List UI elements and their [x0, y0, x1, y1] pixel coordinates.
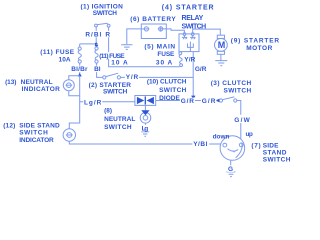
label G/W	[234, 115, 252, 124]
wire Y/Bl bottom run to side stand switch	[69, 141, 221, 144]
svg-text:Lg/R: Lg/R	[84, 100, 102, 107]
svg-text:SWITCH: SWITCH	[19, 130, 48, 137]
fuse F1 10A left	[78, 47, 81, 63]
wire node A down to right fuse	[95, 44, 97, 47]
battery positive terminal	[158, 26, 167, 31]
wire G/R horizontal from diode to clutch switch	[156, 100, 215, 102]
node A junction dot	[95, 43, 98, 46]
connector arrow down above right fuse	[95, 45, 99, 48]
svg-text:Lg: Lg	[142, 126, 149, 133]
ground starter motor	[215, 61, 227, 66]
svg-text:up: up	[246, 131, 253, 138]
label (11) FUSE 10 A right	[99, 52, 131, 66]
diode D1 left triangle	[137, 97, 144, 104]
svg-text:SWITCH: SWITCH	[182, 24, 207, 31]
label (3) CLUTCH SWITCH	[211, 80, 252, 94]
diode D1 cathode bar	[144, 96, 146, 104]
wire R from ignition switch right pole down, then right to main fuse	[109, 27, 180, 67]
ignition switch S1 poles	[95, 24, 98, 27]
neutral switch S3	[140, 105, 151, 131]
svg-text:Y/R: Y/R	[184, 56, 195, 63]
label (9) STARTER MOTOR	[231, 38, 280, 53]
svg-text:INDICATOR: INDICATOR	[19, 137, 54, 144]
wire battery positive to relay terminal	[166, 29, 184, 33]
clutch switch S4	[219, 97, 237, 102]
svg-text:(11) FUSE: (11) FUSE	[40, 49, 74, 56]
label (4) STARTER RELAY SWITCH	[162, 5, 214, 31]
svg-text:10A: 10A	[59, 57, 71, 64]
fuse F2 10A right	[95, 47, 98, 63]
ground battery negative	[121, 45, 132, 50]
ignition switch blade	[97, 23, 108, 24]
label G at side stand ground	[227, 165, 234, 173]
svg-text:(3) CLUTCH: (3) CLUTCH	[211, 80, 252, 87]
relay coil	[188, 42, 194, 52]
side stand indicator lamp L2	[63, 129, 75, 141]
svg-text:30 A: 30 A	[156, 59, 173, 66]
svg-text:10 A: 10 A	[111, 60, 128, 67]
neutral indicator lamp L1	[63, 80, 74, 91]
label (7) SIDE STAND SWITCH	[251, 142, 290, 163]
svg-text:RELAY: RELAY	[182, 15, 204, 22]
svg-text:(7): (7)	[251, 142, 260, 149]
svg-text:G/R: G/R	[195, 66, 207, 73]
starter switch S2	[103, 73, 121, 79]
svg-text:G/R: G/R	[181, 98, 195, 105]
label G/R right on bottom wire	[201, 98, 217, 106]
wire stubs neutral indicator to Bl/Br wire	[69, 76, 80, 96]
label R/Bl	[85, 31, 103, 39]
svg-text:G/R: G/R	[202, 98, 216, 105]
battery BT1 box	[141, 24, 166, 39]
svg-text:Y/R: Y/R	[126, 74, 139, 81]
wire jog from node A to left fuse top	[80, 44, 97, 47]
label (5) MAIN FUSE 30 A	[144, 43, 175, 66]
label Bl/Br	[71, 66, 89, 74]
svg-text:down: down	[213, 134, 230, 141]
relay contact symbols	[182, 36, 187, 40]
connector arrow down at G/R junction	[191, 96, 195, 100]
starter relay switch U2 box	[179, 34, 199, 52]
svg-text:SWITCH: SWITCH	[159, 87, 186, 94]
svg-text:SIDE: SIDE	[263, 142, 279, 149]
label (12) SIDE STAND SWITCH INDICATOR	[3, 122, 60, 144]
relay terminal circles	[183, 33, 186, 36]
connector arrow up on Bl/Br wire	[78, 73, 82, 76]
side stand switch S5	[220, 136, 245, 171]
label Y/Bl	[192, 141, 209, 149]
svg-text:(6) BATTERY: (6) BATTERY	[130, 16, 176, 23]
label Lg/R	[83, 98, 102, 106]
wire G/R vertical from starter relay down	[192, 52, 194, 96]
wire Bl/Br from left fuse down (continues to indicators)	[69, 63, 79, 129]
svg-text:SWITCH: SWITCH	[93, 10, 117, 17]
label (8) NEUTRAL SWITCH	[104, 108, 135, 131]
svg-text:(10) CLUTCH: (10) CLUTCH	[147, 78, 187, 85]
main fuse F3 30A	[179, 52, 183, 67]
diode D1 right triangle	[147, 97, 154, 104]
label (10) CLUTCH SWITCH DIODE	[147, 78, 187, 102]
svg-text:SIDE STAND: SIDE STAND	[19, 122, 60, 129]
label G/R left on bottom wire	[180, 98, 195, 106]
label Lg	[141, 125, 150, 133]
svg-text:(9) STARTER: (9) STARTER	[231, 38, 280, 45]
svg-text:Bl/Br: Bl/Br	[71, 66, 88, 73]
ground neutral switch	[141, 132, 149, 136]
clutch switch diode D1 box	[135, 96, 156, 106]
label (13) NEUTRAL INDICATOR	[5, 79, 60, 93]
svg-text:DIODE: DIODE	[159, 95, 180, 102]
ground side stand switch	[226, 172, 235, 177]
wire Lg/R from Bl/Br column to clutch switch diode	[80, 101, 135, 103]
svg-text:Bl: Bl	[94, 66, 101, 73]
connector arrow left before clutch switch	[215, 99, 219, 103]
svg-text:(13): (13)	[5, 79, 16, 86]
svg-text:(8): (8)	[104, 108, 112, 115]
label (1) IGNITION SWITCH	[81, 4, 124, 17]
wire R/Bl from ignition switch left pole down to fuse node	[95, 27, 97, 44]
battery negative terminal	[141, 27, 149, 31]
wire battery negative to ground	[127, 29, 142, 44]
svg-text:NEUTRAL: NEUTRAL	[104, 116, 135, 123]
label (11) FUSE 10A left	[40, 49, 74, 64]
svg-text:(12): (12)	[3, 122, 15, 129]
svg-text:SWITCH: SWITCH	[263, 157, 291, 164]
svg-text:(5) MAIN: (5) MAIN	[144, 43, 175, 50]
svg-text:M: M	[218, 40, 226, 50]
svg-text:INDICATOR: INDICATOR	[22, 86, 60, 93]
svg-text:R: R	[105, 31, 110, 38]
label Y/R on starter switch wire	[125, 74, 139, 82]
svg-text:SWITCH: SWITCH	[103, 88, 128, 95]
svg-text:R/Bl: R/Bl	[85, 31, 101, 38]
wire clutch switch to G/W vertical down to side stand switch	[237, 101, 241, 140]
label (2) STARTER SWITCH	[89, 82, 132, 95]
starter motor M1	[215, 35, 228, 60]
label Bl	[93, 66, 101, 74]
svg-text:FUSE: FUSE	[157, 51, 175, 58]
svg-text:MOTOR: MOTOR	[246, 45, 272, 52]
wire Y/R from starter switch to relay coil column	[121, 76, 194, 78]
svg-text:Y/Bl: Y/Bl	[193, 141, 207, 148]
wire Bl from right fuse to starter switch	[97, 63, 103, 77]
label R	[105, 31, 112, 39]
svg-text:(4) STARTER: (4) STARTER	[162, 5, 214, 12]
wire relay to starter motor	[193, 29, 221, 35]
svg-text:SWITCH: SWITCH	[104, 124, 132, 131]
svg-text:SWITCH: SWITCH	[224, 87, 252, 94]
svg-text:G: G	[228, 166, 233, 173]
